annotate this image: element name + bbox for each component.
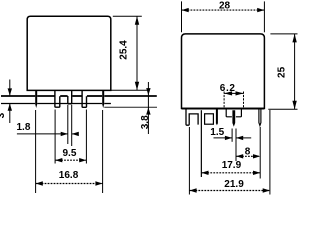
dimension 1.5: [210, 127, 251, 140]
flange top line: [1, 95, 157, 97]
dimension 25.4 (vertical): [119, 16, 140, 90]
dimension 6.2: [220, 83, 244, 108]
dimension 1.8: [17, 122, 79, 136]
svg-text:1.5: 1.5: [210, 127, 224, 138]
dimension 21.9: [189, 179, 270, 193]
solid blade terminal: [216, 109, 218, 125]
pin A (left pin, side view): [35, 90, 37, 108]
lug U1: [55, 91, 60, 108]
body bottom thick line: [182, 108, 265, 110]
svg-text:21.9: 21.9: [224, 179, 244, 190]
svg-text:17.9: 17.9: [222, 160, 242, 171]
right blade terminal: [259, 109, 261, 126]
dimension 17.9: [201, 160, 260, 175]
flange bottom line: [1, 103, 111, 105]
hollow rect lug: [205, 114, 214, 124]
pin-tip extension line: [104, 106, 157, 108]
extension lines below right view: [189, 110, 270, 195]
dimension 3 (flange thickness, far left): [0, 80, 12, 124]
extension lines below lugs: [36, 110, 103, 194]
svg-text:25: 25: [277, 66, 288, 78]
svg-text:1.8: 1.8: [17, 122, 31, 133]
dimension 3.8 (right of left view): [140, 82, 151, 134]
svg-text:3: 3: [0, 112, 7, 118]
centre blade terminal: [232, 110, 235, 127]
collar around centre blade: [226, 109, 232, 117]
pin B (right pin, side view): [102, 90, 104, 108]
svg-text:9.5: 9.5: [63, 148, 77, 159]
dimension 9.5: [55, 148, 86, 162]
extension lines of middle lug for dim 1.8: [67, 105, 69, 144]
lug U2 (middle, 1.8 wide): [68, 91, 72, 104]
lug U3: [82, 91, 86, 108]
dimension 25 (right): [268, 34, 297, 109]
terminal hook lug (left group): [186, 109, 198, 125]
svg-text:8: 8: [245, 146, 251, 157]
centre long blade/extension of 17.9: [200, 110, 202, 177]
svg-text:25.4: 25.4: [119, 40, 130, 60]
dimension 8: [236, 146, 260, 158]
svg-text:16.8: 16.8: [59, 170, 79, 181]
body-bottom extension line: [112, 89, 150, 91]
svg-text:3.8: 3.8: [140, 115, 151, 129]
relay body (front view): [182, 34, 265, 109]
body-top extension line: [113, 15, 142, 17]
dimension 16.8: [36, 170, 103, 186]
dimension 28 (top): [182, 1, 265, 33]
relay body (side view): [27, 16, 111, 90]
